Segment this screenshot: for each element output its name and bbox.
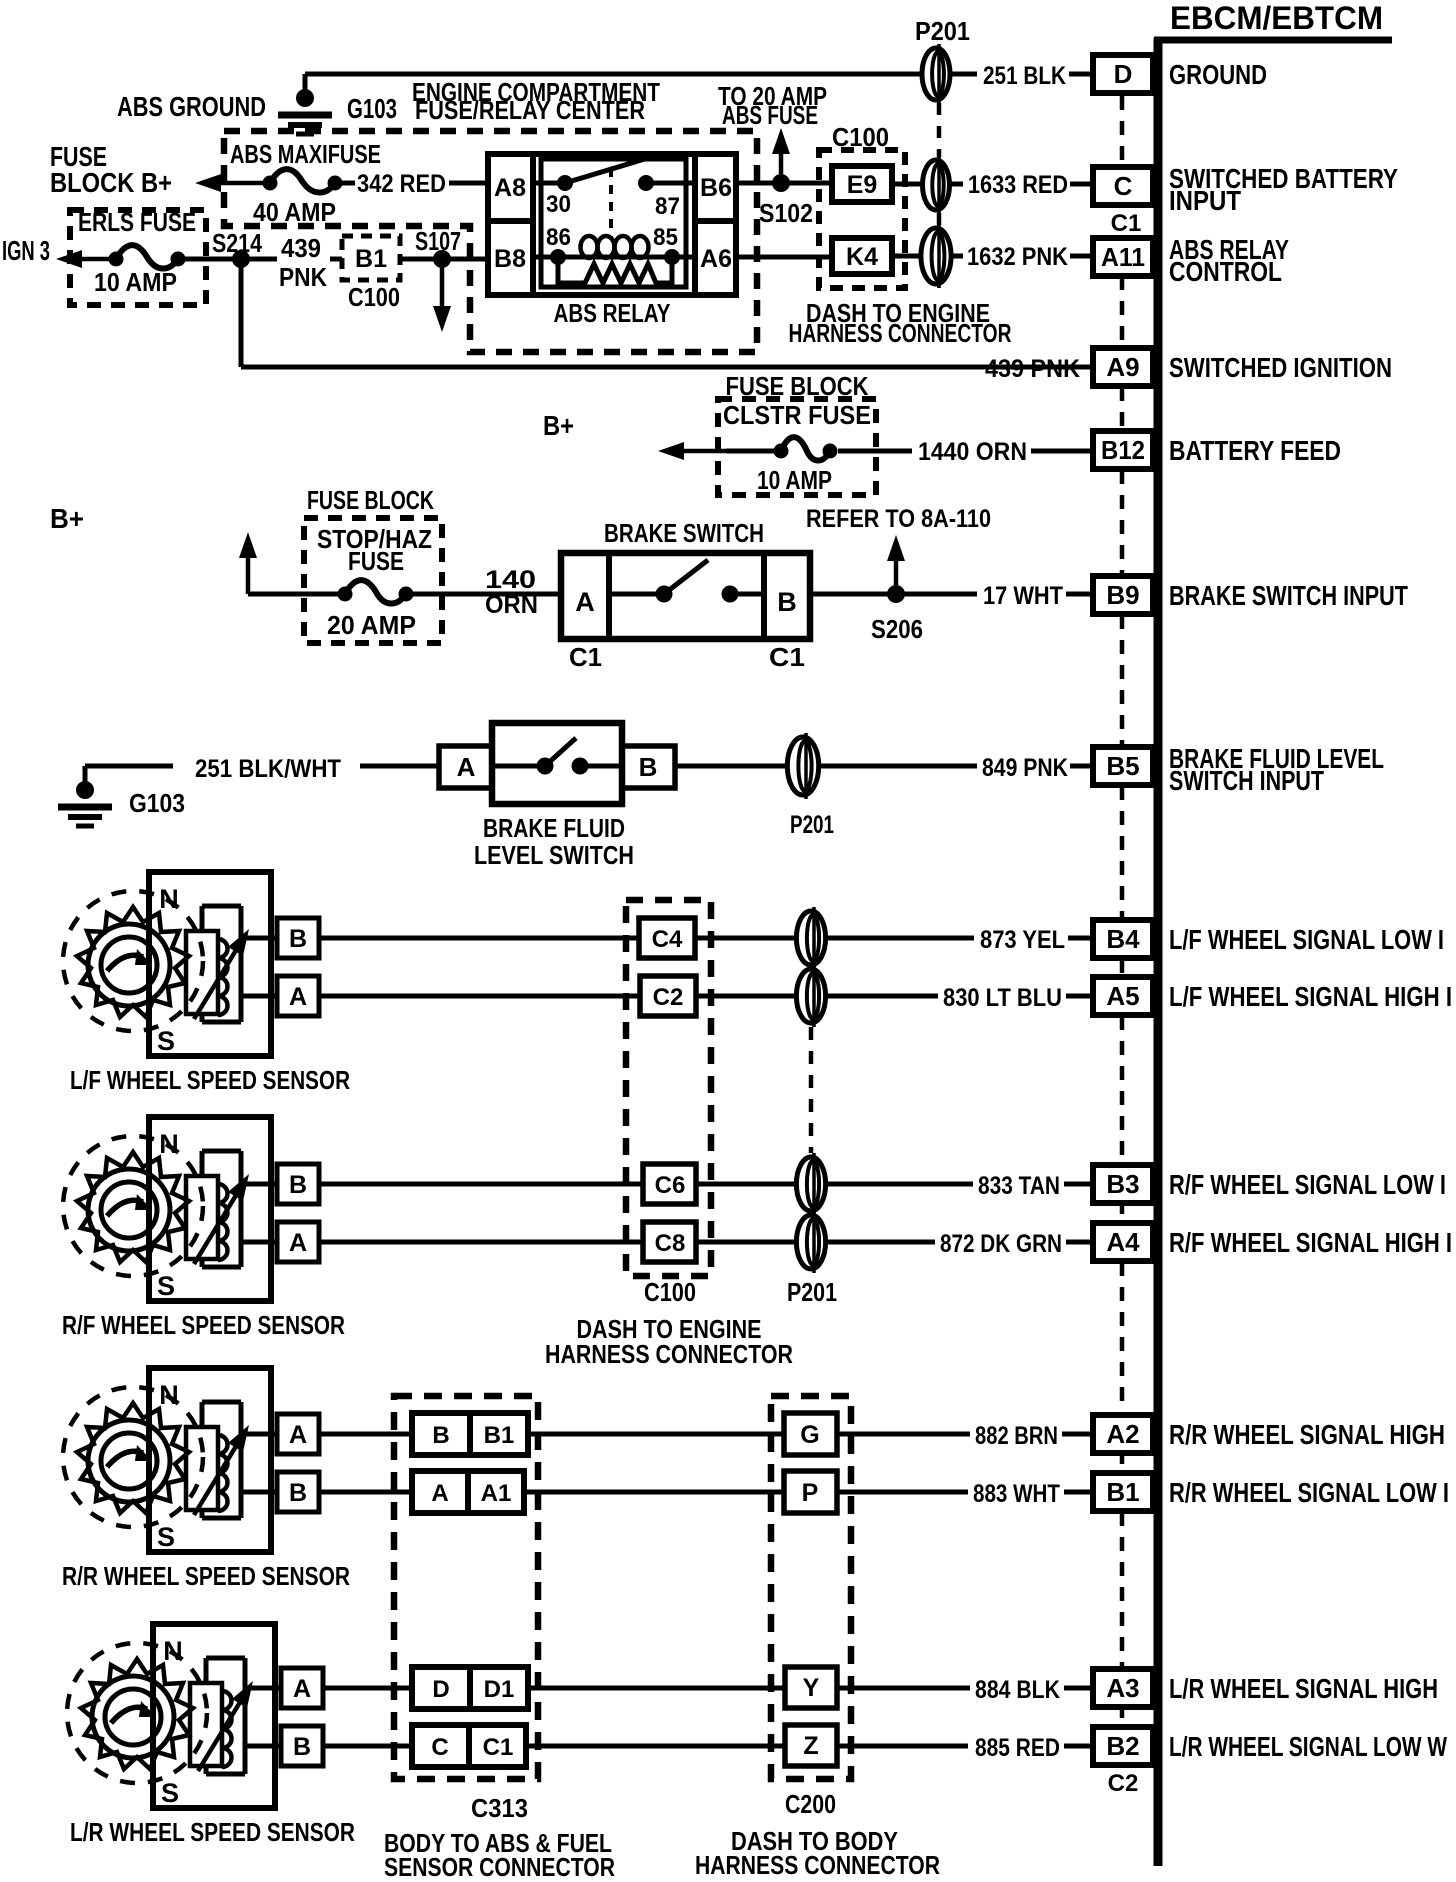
svg-text:A: A: [457, 752, 476, 782]
svg-text:ORN: ORN: [485, 591, 538, 619]
L/R sensor rotation arrow: [111, 1707, 147, 1723]
wire 439 PNK from S214 to pin A9: [239, 259, 244, 367]
svg-text:B8: B8: [494, 245, 526, 273]
svg-text:G103: G103: [347, 93, 397, 124]
svg-text:A: A: [289, 1229, 307, 1257]
engine compartment fuse/relay center dashed boundary: [224, 131, 757, 352]
arrow to IGN 3: [70, 257, 116, 262]
arrow down from S107: [440, 268, 445, 318]
svg-text:B1: B1: [484, 1422, 515, 1449]
wire to connector B1: [249, 257, 277, 262]
R/R sensor toothed ring: [77, 1403, 189, 1513]
svg-text:B: B: [639, 752, 658, 782]
svg-text:E9: E9: [847, 171, 878, 199]
connector C100 dashed box middle: [626, 900, 711, 1276]
svg-text:883 WHT: 883 WHT: [973, 1480, 1060, 1508]
svg-text:R/R WHEEL SIGNAL HIGH: R/R WHEEL SIGNAL HIGH: [1169, 1419, 1445, 1450]
L/R sensor toothed ring: [81, 1659, 193, 1769]
svg-text:R/F WHEEL SIGNAL LOW I: R/F WHEEL SIGNAL LOW I: [1169, 1169, 1446, 1200]
svg-text:R/R WHEEL SIGNAL LOW I: R/R WHEEL SIGNAL LOW I: [1169, 1477, 1449, 1508]
R/F sensor terminal A: [277, 1222, 319, 1262]
svg-text:C100: C100: [832, 122, 889, 152]
connector C100 terminal C2: [640, 976, 696, 1016]
L/F wheel speed sensor box: [149, 872, 271, 1056]
R/R sensor internal wiring: [202, 1400, 241, 1405]
R/F sensor terminal B: [277, 1164, 319, 1204]
EBCM pin box A5: [1093, 977, 1153, 1015]
brake fluid level switch box: [492, 723, 622, 804]
connector C313 dashed box: [394, 1396, 538, 1779]
svg-text:B: B: [432, 1422, 449, 1449]
EBCM pin box B3: [1093, 1165, 1153, 1203]
svg-text:Z: Z: [803, 1732, 818, 1760]
svg-text:882 BRN: 882 BRN: [975, 1422, 1058, 1450]
CLSTR fuse dashed box: [718, 399, 876, 495]
connector C313 terminals D D1: [412, 1667, 528, 1709]
ground G103 symbol: [303, 74, 308, 92]
connector P201 pass-through row B5: [787, 737, 818, 795]
svg-text:1632 PNK: 1632 PNK: [967, 243, 1068, 271]
svg-text:A: A: [431, 1480, 448, 1507]
svg-text:B1: B1: [355, 245, 387, 273]
wire P to B1: [837, 1490, 968, 1495]
wire C2 to P201: [696, 994, 796, 999]
L/F sensor hub circles: [88, 924, 170, 1006]
svg-text:C1: C1: [483, 1734, 514, 1761]
R/F sensor toothed ring: [77, 1152, 189, 1262]
svg-text:S206: S206: [871, 614, 923, 644]
wire L/F low to C4: [319, 936, 639, 941]
connector C100 terminal K4: [832, 238, 892, 274]
R/F wheel speed sensor box: [149, 1117, 271, 1301]
svg-text:B9: B9: [1106, 580, 1139, 610]
svg-text:L/F WHEEL SIGNAL HIGH I: L/F WHEEL SIGNAL HIGH I: [1169, 981, 1452, 1012]
svg-text:L/F WHEEL SIGNAL LOW I: L/F WHEEL SIGNAL LOW I: [1169, 924, 1444, 955]
svg-text:ERLS FUSE: ERLS FUSE: [78, 207, 196, 237]
svg-text:IGN 3: IGN 3: [2, 235, 50, 266]
wire C6 to P201: [696, 1182, 796, 1187]
svg-text:INPUT: INPUT: [1169, 185, 1241, 216]
L/R sensor terminal B: [281, 1726, 323, 1766]
svg-text:1633 RED: 1633 RED: [968, 171, 1068, 199]
L/R wheel speed sensor box: [153, 1624, 275, 1808]
connector C200 terminal Y: [785, 1667, 837, 1708]
svg-text:C1: C1: [769, 642, 805, 672]
svg-text:S102: S102: [759, 198, 813, 228]
EBCM internal dashed connector line: [1120, 96, 1125, 166]
svg-text:85: 85: [653, 224, 678, 251]
connector C313 terminals C C1: [412, 1725, 526, 1767]
connector P201 pass-through row A11: [921, 228, 951, 284]
wire 342 RED: [342, 181, 355, 186]
L/F sensor toothed ring: [77, 907, 189, 1017]
svg-text:A: A: [289, 1421, 307, 1449]
svg-text:FUSE BLOCK: FUSE BLOCK: [307, 485, 434, 515]
svg-text:HARNESS CONNECTOR: HARNESS CONNECTOR: [545, 1339, 793, 1369]
svg-text:B1: B1: [1106, 1477, 1139, 1507]
dashed connector line P201 middle: [809, 1027, 814, 1153]
wire 251 BLK from ground to EBCM pin D: [305, 72, 921, 77]
brake fluid switch contact: [492, 764, 545, 769]
svg-text:S: S: [161, 1778, 179, 1808]
R/R sensor terminal B: [277, 1472, 319, 1512]
svg-text:BRAKE SWITCH: BRAKE SWITCH: [604, 518, 764, 548]
wire B1 to G: [528, 1432, 784, 1437]
wire 1440 ORN: [838, 449, 912, 454]
wire B+ to stop/haz fuse: [248, 592, 345, 597]
wire G to A2: [837, 1432, 970, 1437]
connector C100 terminal B1 dashed box: [342, 236, 400, 280]
wire C8 to P201: [696, 1240, 796, 1245]
svg-text:439: 439: [281, 233, 321, 263]
EBCM pin box A9: [1093, 348, 1153, 386]
STOP/HAZ fuse dashed box: [304, 518, 442, 643]
svg-text:872 DK GRN: 872 DK GRN: [940, 1230, 1062, 1258]
svg-text:CONTROL: CONTROL: [1169, 256, 1282, 287]
L/R sensor hub circles: [92, 1676, 174, 1758]
L/R sensor dashed rotor circle: [67, 1643, 207, 1783]
wire 849 PNK: [675, 764, 787, 769]
svg-text:A8: A8: [494, 174, 526, 202]
svg-text:873 YEL: 873 YEL: [980, 926, 1065, 954]
svg-text:R/F WHEEL SIGNAL HIGH I: R/F WHEEL SIGNAL HIGH I: [1169, 1227, 1452, 1258]
wire Z to B2: [837, 1744, 968, 1749]
svg-text:C313: C313: [471, 1793, 528, 1823]
L/F sensor dashed rotor circle: [63, 891, 203, 1031]
connector C200 dashed box: [771, 1396, 851, 1779]
svg-text:B+: B+: [543, 410, 574, 441]
svg-text:BATTERY FEED: BATTERY FEED: [1169, 435, 1341, 466]
connector C200 terminal Z: [785, 1725, 837, 1766]
fuse ABS MAXIFUSE 40 AMP: [263, 176, 278, 191]
dashed connector line P201 top: [937, 103, 942, 157]
EBCM pin box A2: [1093, 1415, 1153, 1453]
svg-text:S107: S107: [415, 226, 461, 256]
wire 439 PNK from fuse to S214: [185, 257, 241, 262]
R/R wheel speed sensor box: [149, 1368, 271, 1552]
svg-text:C1: C1: [569, 642, 602, 672]
ERLS fuse dashed box: [70, 210, 206, 305]
connector C100 terminal C6: [643, 1164, 696, 1204]
connector C313 terminals B B1: [412, 1413, 528, 1455]
relay coil 86-85: [533, 255, 558, 260]
svg-text:B12: B12: [1101, 435, 1145, 465]
svg-text:A: A: [293, 1675, 311, 1703]
svg-text:ABS RELAY: ABS RELAY: [554, 298, 671, 328]
R/R sensor rotation arrow: [107, 1451, 143, 1467]
EBCM pin box A4: [1093, 1223, 1153, 1261]
EBCM pin box B4: [1093, 920, 1153, 958]
svg-text:10 AMP: 10 AMP: [94, 267, 177, 297]
EBCM pin box B1: [1093, 1473, 1153, 1511]
svg-text:L/R WHEEL SPEED SENSOR: L/R WHEEL SPEED SENSOR: [70, 1817, 355, 1847]
L/F sensor terminal A: [277, 976, 319, 1016]
arrow to fuse block B+: [209, 181, 275, 186]
svg-text:L/R WHEEL SIGNAL LOW W: L/R WHEEL SIGNAL LOW W: [1169, 1731, 1447, 1762]
svg-text:251 BLK: 251 BLK: [983, 62, 1066, 90]
EBCM pin box D: [1093, 55, 1153, 93]
R/F sensor coil: [186, 1176, 218, 1259]
wire L/R high sensor to C313: [323, 1686, 412, 1691]
svg-text:B5: B5: [1106, 751, 1139, 781]
svg-text:GROUND: GROUND: [1169, 59, 1267, 90]
EBCM pin box B2: [1093, 1727, 1153, 1765]
L/F sensor rotation arrow: [107, 955, 143, 971]
R/R sensor hub circles: [88, 1420, 170, 1502]
svg-text:B4: B4: [1106, 924, 1140, 954]
svg-text:C100: C100: [348, 282, 400, 312]
EBCM pin box C: [1093, 167, 1153, 205]
svg-text:A6: A6: [700, 245, 732, 273]
svg-text:1440 ORN: 1440 ORN: [918, 438, 1027, 466]
svg-text:BRAKE FLUID: BRAKE FLUID: [483, 813, 625, 843]
svg-text:C2: C2: [653, 984, 684, 1011]
svg-text:S: S: [157, 1271, 175, 1301]
wire 140 ORN: [406, 592, 561, 597]
svg-text:L/R WHEEL SIGNAL HIGH: L/R WHEEL SIGNAL HIGH: [1169, 1673, 1438, 1704]
relay switch contact 30-87: [533, 181, 565, 186]
wire E9 to P201: [892, 182, 921, 187]
svg-text:C200: C200: [785, 1789, 836, 1819]
EBCM module boundary line: [1154, 38, 1163, 1866]
arrow up from S102 to ABS fuse: [779, 142, 784, 174]
svg-text:C: C: [1114, 171, 1133, 201]
svg-text:885 RED: 885 RED: [975, 1734, 1060, 1762]
connector P201 row B3: [796, 1157, 825, 1211]
svg-text:P201: P201: [787, 1277, 837, 1307]
svg-text:C100: C100: [644, 1277, 696, 1307]
splice S102: [772, 174, 790, 192]
svg-text:17 WHT: 17 WHT: [983, 582, 1063, 610]
svg-text:L/F WHEEL SPEED SENSOR: L/F WHEEL SPEED SENSOR: [70, 1065, 350, 1095]
connector C100 terminal E9: [832, 166, 892, 202]
svg-text:D: D: [432, 1676, 449, 1703]
wire 17 WHT: [810, 592, 977, 597]
wire B6 to connector E9: [736, 181, 832, 186]
R/F sensor rotation arrow: [107, 1200, 143, 1216]
L/R sensor terminal A: [281, 1668, 323, 1708]
connector C200 terminal P: [784, 1471, 837, 1513]
svg-text:EBCM/EBTCM: EBCM/EBTCM: [1170, 0, 1383, 36]
connector C100 terminal C4: [639, 918, 695, 958]
connector P201 row A5: [796, 969, 825, 1023]
relay terminal A8: [530, 154, 536, 295]
svg-text:CLSTR FUSE: CLSTR FUSE: [723, 400, 871, 430]
connector P201 row B4: [796, 911, 825, 965]
svg-text:87: 87: [655, 193, 680, 220]
svg-text:SWITCHED IGNITION: SWITCHED IGNITION: [1169, 352, 1392, 383]
svg-text:86: 86: [546, 224, 571, 251]
splice S214: [232, 250, 250, 268]
svg-text:830 LT BLU: 830 LT BLU: [943, 984, 1062, 1012]
wire C1 to Z: [526, 1744, 785, 1749]
wire from B1 to S107: [400, 257, 488, 262]
fuse STOP/HAZ 20 AMP: [338, 587, 353, 602]
R/R sensor flux arrow: [194, 1437, 241, 1515]
svg-text:P: P: [802, 1479, 819, 1507]
connector P201 row A4: [796, 1215, 825, 1269]
R/F sensor flux arrow: [194, 1186, 241, 1264]
svg-text:B6: B6: [700, 174, 732, 202]
wire Y to A3: [837, 1686, 970, 1691]
svg-text:SENSOR CONNECTOR: SENSOR CONNECTOR: [384, 1852, 615, 1882]
wire C4 to P201: [695, 936, 796, 941]
EBCM pin box A11: [1093, 238, 1153, 276]
R/F sensor hub circles: [88, 1169, 170, 1251]
fuse CLSTR 10 AMP: [774, 444, 789, 459]
L/F sensor flux arrow: [194, 941, 241, 1019]
connector C100 dashed box around E9 K4: [819, 150, 905, 288]
splice S107: [433, 250, 451, 268]
svg-text:SWITCH INPUT: SWITCH INPUT: [1169, 765, 1324, 796]
wire D1 to Y: [528, 1686, 785, 1691]
svg-text:342 RED: 342 RED: [357, 170, 446, 198]
R/F sensor dashed rotor circle: [63, 1136, 203, 1276]
svg-text:BLOCK B+: BLOCK B+: [50, 167, 172, 198]
svg-text:B: B: [289, 1479, 307, 1507]
svg-text:FUSE/RELAY CENTER: FUSE/RELAY CENTER: [415, 95, 645, 125]
svg-text:A: A: [289, 983, 307, 1011]
svg-text:P201: P201: [915, 16, 970, 46]
wire L/R low sensor to C313: [323, 1744, 412, 1749]
ground G103 brake fluid: [83, 766, 88, 784]
svg-text:C8: C8: [655, 1230, 686, 1257]
svg-text:P201: P201: [790, 811, 834, 839]
svg-text:B+: B+: [50, 503, 84, 534]
svg-text:HARNESS CONNECTOR: HARNESS CONNECTOR: [789, 318, 1012, 348]
svg-text:D: D: [1114, 59, 1133, 89]
EBCM pin box B12: [1093, 431, 1153, 469]
relay dashed link: [609, 168, 613, 238]
arrow to B+ from CLSTR fuse: [672, 449, 730, 454]
svg-text:884 BLK: 884 BLK: [975, 1676, 1060, 1704]
svg-text:A1: A1: [481, 1480, 512, 1507]
svg-text:BRAKE SWITCH INPUT: BRAKE SWITCH INPUT: [1169, 580, 1408, 611]
EBCM pin box B5: [1093, 747, 1153, 785]
connector C200 terminal G: [784, 1413, 837, 1455]
ABS relay outer box: [488, 154, 736, 295]
relay inner box: [541, 159, 686, 287]
svg-text:REFER TO 8A-110: REFER TO 8A-110: [806, 505, 991, 533]
svg-text:C: C: [431, 1734, 448, 1761]
svg-text:A9: A9: [1106, 352, 1139, 382]
svg-text:A5: A5: [1106, 981, 1139, 1011]
svg-text:C1: C1: [1111, 210, 1142, 237]
arrow up B+ stop/haz: [246, 546, 251, 594]
L/F sensor internal wiring: [202, 904, 241, 909]
L/F sensor terminal B: [277, 918, 319, 958]
svg-text:A4: A4: [1106, 1227, 1140, 1257]
svg-text:LEVEL SWITCH: LEVEL SWITCH: [474, 840, 634, 870]
svg-text:439 PNK: 439 PNK: [985, 355, 1080, 383]
wire L/F high to C2: [319, 994, 640, 999]
svg-text:833 TAN: 833 TAN: [978, 1172, 1060, 1200]
svg-text:B: B: [293, 1733, 311, 1761]
svg-text:G: G: [800, 1421, 819, 1449]
wire R/R low sensor to C313: [319, 1490, 412, 1495]
svg-text:ABS FUSE: ABS FUSE: [722, 100, 818, 130]
svg-text:FUSE: FUSE: [348, 546, 404, 576]
wire A1 to P: [524, 1490, 784, 1495]
svg-text:A: A: [575, 587, 595, 617]
connector C313 terminals A A1: [412, 1471, 524, 1513]
brake fluid switch terminal A: [439, 746, 492, 788]
R/R sensor coil: [186, 1427, 218, 1510]
connector P201 pass-through row C: [923, 160, 950, 210]
wire R/R high sensor to C313: [319, 1432, 412, 1437]
svg-text:S: S: [157, 1026, 175, 1056]
svg-text:K4: K4: [846, 243, 878, 271]
svg-text:D1: D1: [484, 1676, 515, 1703]
wire 251 BLK/WHT: [85, 764, 173, 769]
svg-text:A2: A2: [1106, 1419, 1139, 1449]
svg-text:C2: C2: [1108, 1770, 1139, 1797]
R/R sensor terminal A: [277, 1414, 319, 1454]
svg-text:B: B: [289, 925, 307, 953]
relay terminal B6: [692, 154, 698, 295]
arrow up from S206: [894, 549, 899, 585]
L/R sensor coil: [190, 1683, 222, 1766]
svg-text:C6: C6: [655, 1172, 686, 1199]
svg-text:849 PNK: 849 PNK: [982, 754, 1068, 782]
svg-text:HARNESS CONNECTOR: HARNESS CONNECTOR: [695, 1850, 940, 1880]
svg-text:140: 140: [485, 566, 536, 594]
svg-text:ABS GROUND: ABS GROUND: [117, 91, 266, 122]
connector C100 terminal C8: [643, 1222, 696, 1262]
svg-text:10 AMP: 10 AMP: [757, 465, 832, 495]
wire R/F low to C6: [319, 1182, 643, 1187]
wire label 849 PNK: [820, 764, 977, 769]
svg-text:Y: Y: [803, 1674, 820, 1702]
svg-text:A3: A3: [1106, 1673, 1139, 1703]
L/R sensor flux arrow: [198, 1693, 245, 1771]
L/F sensor coil: [186, 931, 218, 1014]
svg-text:40 AMP: 40 AMP: [253, 197, 336, 227]
L/R sensor internal wiring: [206, 1656, 245, 1661]
svg-text:R/F WHEEL SPEED SENSOR: R/F WHEEL SPEED SENSOR: [62, 1310, 345, 1340]
svg-text:C4: C4: [652, 926, 683, 953]
splice S206: [887, 585, 905, 603]
svg-text:B3: B3: [1106, 1169, 1139, 1199]
wire R/F high to C8: [319, 1240, 643, 1245]
svg-text:B: B: [777, 587, 797, 617]
svg-text:20 AMP: 20 AMP: [327, 610, 416, 640]
svg-text:ABS MAXIFUSE: ABS MAXIFUSE: [230, 139, 381, 169]
wire A6 to K4: [736, 255, 832, 260]
EBCM pin box B9: [1093, 576, 1153, 614]
svg-text:S: S: [157, 1522, 175, 1552]
brake switch contact: [609, 592, 664, 597]
brake fluid switch terminal B: [622, 746, 675, 788]
svg-text:B2: B2: [1106, 1731, 1139, 1761]
svg-text:30: 30: [546, 191, 571, 218]
svg-text:251 BLK/WHT: 251 BLK/WHT: [195, 755, 341, 783]
EBCM pin box A3: [1093, 1669, 1153, 1707]
EBCM top edge: [1154, 37, 1392, 44]
relay resistor: [558, 262, 672, 283]
svg-text:S214: S214: [212, 228, 262, 258]
R/F sensor internal wiring: [202, 1149, 241, 1154]
connector P201 pass-through row D: [922, 48, 950, 100]
svg-text:G103: G103: [129, 788, 185, 818]
wire K4 to P201: [892, 254, 921, 259]
fuse ERLS 10 AMP: [109, 252, 124, 267]
R/R sensor dashed rotor circle: [63, 1387, 203, 1527]
svg-text:A11: A11: [1101, 242, 1145, 272]
svg-text:B: B: [289, 1171, 307, 1199]
svg-text:PNK: PNK: [279, 262, 327, 292]
brake switch box: [561, 553, 810, 639]
